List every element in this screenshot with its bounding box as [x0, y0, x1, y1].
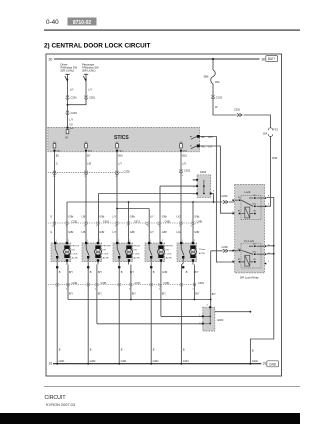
svg-text:3: 3 [207, 304, 209, 306]
svg-text:C361: C361 [89, 96, 96, 100]
svg-text:B: B [90, 271, 92, 274]
svg-text:G/Br: G/Br [194, 215, 199, 218]
svg-text:C202: C202 [221, 194, 228, 198]
svg-text:R/W: R/W [272, 156, 278, 160]
svg-text:C261: C261 [71, 96, 78, 100]
svg-text:1: 1 [150, 240, 152, 242]
svg-text:B/Y: B/Y [195, 271, 199, 274]
svg-text:A1: A1 [202, 144, 206, 148]
svg-text:G/Br: G/Br [194, 231, 199, 234]
svg-text:Lock: Lock [245, 190, 252, 194]
svg-text:7: 7 [193, 194, 195, 196]
svg-text:4: 4 [193, 186, 195, 188]
svg-text:ACTR: ACTR [134, 257, 140, 260]
svg-text:7: 7 [268, 261, 270, 263]
svg-text:C261: C261 [72, 221, 79, 224]
svg-text:5: 5 [159, 226, 161, 228]
svg-text:C481: C481 [198, 282, 205, 285]
svg-text:15A: 15A [263, 131, 268, 135]
svg-text:30: 30 [262, 57, 266, 61]
svg-text:(DR L/UNL): (DR L/UNL) [61, 69, 75, 73]
svg-text:G/Br: G/Br [130, 231, 135, 234]
svg-text:B: B [59, 271, 61, 274]
svg-text:B: B [153, 349, 155, 352]
svg-text:E303: E303 [218, 319, 224, 322]
svg-text:G: G [50, 215, 52, 218]
svg-text:G/Br: G/Br [162, 271, 167, 274]
svg-text:G/Br: G/Br [162, 231, 167, 234]
svg-text:23: 23 [84, 226, 87, 228]
svg-text:0-40: 0-40 [46, 19, 59, 26]
svg-text:LOCK: LOCK [134, 254, 140, 256]
svg-text:ACTR: ACTR [166, 257, 172, 260]
svg-text:B: B [186, 271, 188, 274]
svg-text:B/Y: B/Y [69, 271, 73, 274]
svg-text:7: 7 [126, 226, 128, 228]
svg-text:SIG: SIG [183, 151, 187, 153]
svg-text:B/Y: B/Y [162, 293, 166, 296]
svg-text:LOCK: LOCK [166, 254, 172, 256]
svg-text:L/B: L/B [82, 231, 86, 234]
svg-text:B/Y: B/Y [98, 271, 102, 274]
svg-text:GND: GND [269, 362, 277, 366]
svg-text:G/Br: G/Br [68, 231, 73, 234]
svg-text:STICS: STICS [114, 135, 129, 141]
svg-text:1: 1 [182, 240, 184, 242]
svg-text:C203: C203 [71, 111, 78, 115]
svg-text:B: B [183, 349, 185, 352]
svg-text:3: 3 [194, 240, 196, 242]
svg-text:B: B [153, 271, 155, 274]
svg-text:L/Y: L/Y [69, 117, 73, 121]
svg-text:B: B [121, 271, 123, 274]
svg-text:1: 1 [268, 204, 270, 206]
svg-text:W: W [215, 105, 218, 109]
svg-text:CIRCUIT: CIRCUIT [45, 395, 67, 401]
svg-text:1: 1 [56, 240, 58, 242]
svg-text:L/Y: L/Y [113, 215, 117, 218]
svg-text:L/B: L/B [87, 162, 91, 165]
svg-text:10: 10 [53, 176, 56, 178]
svg-text:SIG: SIG [119, 151, 123, 153]
svg-text:B16: B16 [118, 154, 123, 157]
svg-text:BAT+: BAT+ [268, 57, 276, 61]
svg-text:B/Y: B/Y [98, 293, 102, 296]
svg-text:C9: C9 [69, 123, 73, 127]
svg-text:E303: E303 [200, 170, 207, 174]
svg-text:C103: C103 [216, 96, 223, 100]
svg-text:B/Y: B/Y [212, 293, 216, 296]
svg-text:B2: B2 [56, 154, 60, 157]
svg-text:ACTR: ACTR [103, 257, 109, 260]
svg-text:T/Gate: T/Gate [199, 248, 206, 251]
svg-text:G201: G201 [59, 360, 66, 363]
svg-text:ACTR: ACTR [199, 252, 205, 255]
svg-text:G402: G402 [153, 360, 160, 363]
svg-text:L/G: L/G [182, 162, 186, 165]
svg-text:L/Y: L/Y [113, 231, 117, 234]
svg-text:G202: G202 [252, 360, 259, 363]
svg-text:G: G [50, 231, 52, 234]
svg-text:KYRON 2007.03: KYRON 2007.03 [46, 402, 75, 407]
svg-text:C451: C451 [164, 282, 171, 285]
svg-text:SIG: SIG [88, 151, 92, 153]
svg-text:DR Lock Relay: DR Lock Relay [240, 276, 259, 280]
svg-text:SIG: SIG [70, 128, 74, 130]
svg-text:RR LH: RR LH [134, 246, 141, 248]
svg-text:4: 4 [182, 175, 184, 177]
svg-text:B: B [121, 349, 123, 352]
svg-text:SB6: SB6 [204, 75, 209, 79]
svg-text:B: B [90, 349, 92, 352]
svg-text:31: 31 [263, 362, 267, 366]
svg-text:L/Y: L/Y [118, 162, 122, 165]
svg-text:G/Br: G/Br [99, 215, 104, 218]
svg-text:G/Br: G/Br [68, 215, 73, 218]
svg-text:27: 27 [116, 176, 119, 178]
svg-text:3: 3 [129, 240, 131, 242]
svg-text:B: B [252, 350, 254, 353]
svg-text:L/Y: L/Y [88, 87, 92, 91]
svg-text:LOCK: LOCK [72, 254, 78, 256]
svg-text:DR: DR [166, 250, 170, 252]
svg-text:2) CENTRAL DOOR LOCK CIRCUIT: 2) CENTRAL DOOR LOCK CIRCUIT [44, 43, 150, 50]
svg-text:B15: B15 [182, 154, 187, 157]
svg-text:C371: C371 [135, 282, 142, 285]
svg-text:21: 21 [179, 226, 182, 228]
svg-text:(DR L/UNL): (DR L/UNL) [82, 69, 96, 73]
svg-text:G/Br: G/Br [162, 215, 167, 218]
svg-text:3: 3 [99, 240, 101, 242]
svg-text:G/Br: G/Br [99, 231, 104, 234]
svg-text:5: 5 [193, 180, 195, 182]
svg-text:DR: DR [72, 250, 76, 252]
svg-text:30A: 30A [215, 80, 220, 84]
svg-text:DR: DR [103, 250, 107, 252]
svg-text:B/Y: B/Y [69, 293, 73, 296]
svg-text:8710-02: 8710-02 [73, 20, 92, 26]
svg-text:RR RH: RR RH [166, 246, 173, 248]
svg-text:F23: F23 [273, 128, 278, 132]
svg-text:20: 20 [115, 226, 118, 228]
svg-text:L/B: L/B [82, 215, 86, 218]
svg-text:SIG: SIG [57, 151, 61, 153]
svg-text:B/Y: B/Y [130, 271, 134, 274]
svg-text:G/Br: G/Br [130, 215, 135, 218]
svg-text:L/Y: L/Y [150, 231, 154, 234]
svg-text:L/G: L/G [177, 231, 181, 234]
svg-text:C361: C361 [101, 282, 108, 285]
svg-text:C202: C202 [184, 168, 191, 172]
svg-text:L/Y: L/Y [150, 215, 154, 218]
svg-text:3: 3 [68, 240, 70, 242]
svg-text:G: G [56, 162, 58, 165]
svg-text:3: 3 [162, 240, 164, 242]
svg-text:B2: B2 [202, 135, 206, 139]
svg-text:B: B [59, 349, 61, 352]
svg-text:6V: 6V [65, 136, 68, 139]
svg-text:31: 31 [49, 362, 53, 366]
svg-text:C451: C451 [165, 221, 172, 224]
svg-text:FRT RH: FRT RH [103, 246, 111, 248]
svg-text:LOCK: LOCK [103, 254, 109, 256]
svg-text:C202: C202 [234, 108, 241, 112]
svg-text:C202: C202 [222, 245, 229, 249]
svg-text:G401: G401 [121, 360, 128, 363]
svg-text:L/Y: L/Y [70, 87, 74, 91]
svg-text:L/G: L/G [177, 215, 181, 218]
svg-text:9: 9 [66, 226, 68, 228]
svg-text:30: 30 [49, 57, 53, 61]
svg-text:C481: C481 [197, 221, 204, 224]
svg-text:B/Y: B/Y [195, 293, 199, 296]
svg-text:ACTR: ACTR [72, 257, 78, 260]
svg-text:FRT LH: FRT LH [72, 246, 80, 248]
svg-text:C202: C202 [124, 169, 131, 173]
svg-text:C361: C361 [103, 221, 110, 224]
svg-text:1: 1 [118, 240, 120, 242]
svg-text:8: 8 [96, 226, 98, 228]
svg-text:G302: G302 [90, 360, 97, 363]
svg-text:C371: C371 [134, 221, 141, 224]
svg-text:8: 8 [213, 191, 215, 193]
svg-text:1: 1 [87, 240, 89, 242]
svg-text:DR: DR [134, 250, 138, 252]
svg-text:C261: C261 [72, 282, 79, 285]
svg-text:B/Y: B/Y [132, 293, 136, 296]
svg-text:G461: G461 [183, 360, 190, 363]
svg-text:R/V: R/V [209, 135, 214, 139]
svg-text:6: 6 [191, 226, 193, 228]
svg-text:B7: B7 [87, 154, 91, 157]
svg-text:L/Y: L/Y [209, 144, 213, 148]
